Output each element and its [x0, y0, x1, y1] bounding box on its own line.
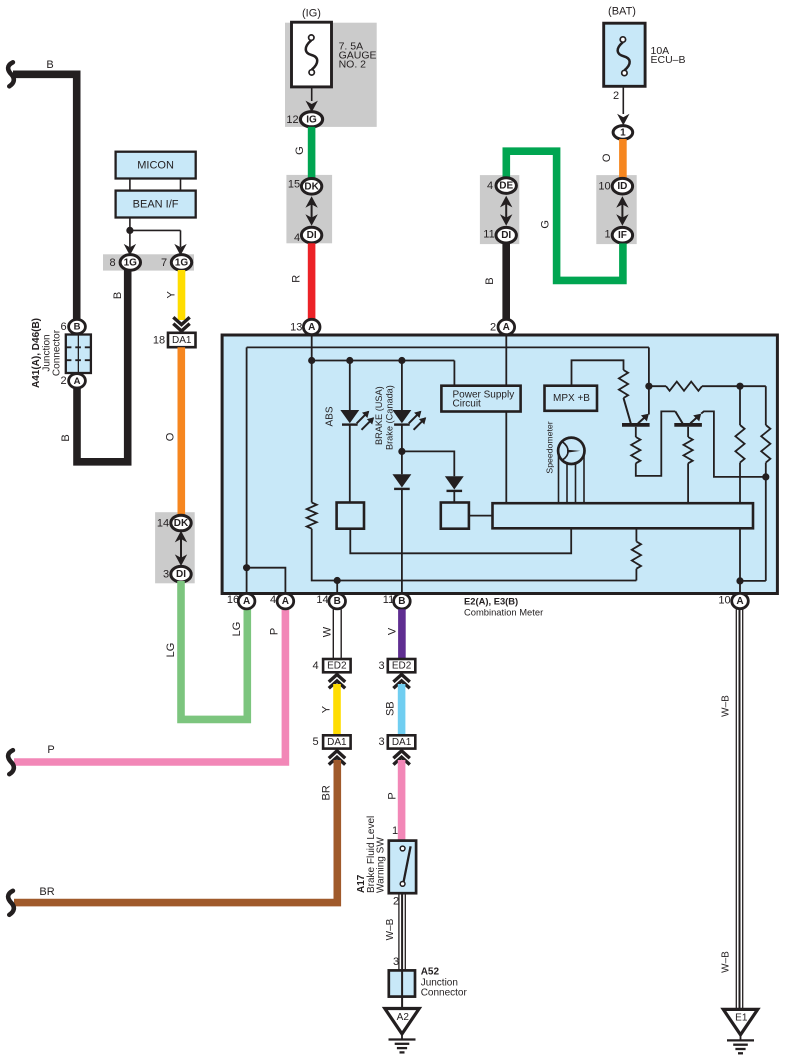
svg-text:G: G	[540, 220, 552, 229]
svg-text:IF: IF	[618, 230, 627, 241]
connector 11 (DI)	[483, 227, 516, 243]
node: dot ABS branch	[346, 357, 353, 364]
meter pin 16 (A)	[227, 594, 255, 609]
svg-text:ECU–B: ECU–B	[651, 54, 686, 66]
connector 4 (DE)	[487, 178, 516, 194]
svg-text:10: 10	[598, 181, 610, 193]
gray background box DK/DI connector (IG column)	[286, 175, 332, 243]
connector 15 (DK)	[288, 178, 322, 194]
svg-text:Connector: Connector	[51, 329, 62, 376]
svg-text:1: 1	[620, 127, 626, 138]
LED BRAKE	[392, 361, 426, 452]
svg-text:DK: DK	[304, 181, 319, 192]
diode D3 (to driver box)	[402, 451, 464, 502]
svg-text:DK: DK	[174, 518, 189, 529]
resistor R4 (horizontal)	[649, 382, 766, 391]
chevron into ED2	[393, 675, 409, 689]
svg-text:B: B	[112, 292, 124, 299]
resistor R5 (on pin10 rail)	[735, 386, 744, 593]
svg-text:4: 4	[487, 180, 493, 192]
wire Y (yellow, ED2 to DA1)	[321, 684, 337, 735]
svg-text:A52: A52	[421, 966, 440, 977]
wire: top rail down to Q1	[648, 347, 650, 414]
svg-text:14: 14	[157, 517, 169, 529]
connector 1 (IF)	[604, 227, 632, 243]
wire: R6 to pin10 rail	[740, 580, 766, 582]
connector 3 (DI)	[163, 566, 191, 582]
svg-text:Circuit: Circuit	[453, 399, 482, 410]
svg-text:DI: DI	[307, 230, 317, 241]
svg-text:16: 16	[227, 594, 239, 606]
connector pin 2 (A)	[60, 374, 85, 388]
chevron into DA1	[393, 751, 409, 765]
svg-text:4: 4	[294, 232, 300, 244]
resistor: left shunt (pin13 rail to bottom rail)	[311, 361, 313, 503]
connector 12 (IG)	[286, 112, 322, 127]
svg-text:B: B	[74, 322, 81, 333]
svg-text:2: 2	[393, 896, 399, 908]
svg-text:LG: LG	[231, 622, 243, 637]
svg-text:ID: ID	[617, 181, 627, 192]
svg-text:P: P	[47, 744, 54, 756]
svg-text:DI: DI	[501, 230, 511, 241]
diode D2 (to pin 11)	[392, 451, 411, 593]
wire: resistor to bottom rail	[312, 529, 637, 581]
wire R (red, DI to meter pin 13)	[291, 243, 312, 322]
svg-text:W–B: W–B	[721, 695, 732, 717]
svg-text:BR: BR	[320, 785, 332, 800]
connector 10 (ID)	[598, 178, 632, 194]
wire P (pink, meter pin 4 to break)	[8, 606, 285, 774]
svg-text:11: 11	[483, 229, 494, 241]
svg-text:Speedometer: Speedometer	[545, 421, 555, 473]
svg-text:4: 4	[312, 660, 318, 672]
svg-text:W–B: W–B	[721, 951, 732, 973]
wire BR (brown, DA1 to break)	[8, 760, 337, 915]
wire: branch to pin 4	[247, 568, 286, 593]
svg-text:1: 1	[604, 229, 610, 241]
svg-text:A: A	[282, 596, 289, 607]
svg-text:W–B: W–B	[385, 918, 396, 940]
svg-text:8: 8	[109, 257, 115, 269]
svg-text:BEAN I/F: BEAN I/F	[133, 199, 179, 211]
Power Supply Circuit box	[441, 386, 520, 412]
wire SB (sky blue, ED2 to DA1)	[385, 684, 402, 735]
gray background box IG fuse block	[285, 23, 377, 127]
connector pin 8 (1G)	[109, 255, 140, 271]
connector 1	[613, 126, 633, 140]
meter pin 2 (A)	[490, 319, 515, 334]
transistor Q2	[674, 411, 702, 425]
wire: pin 2 down to power supply circuit	[505, 336, 507, 386]
wire: driver box 2 to bus bar	[469, 515, 493, 517]
wire: rail down to power supply circuit	[453, 361, 455, 386]
driver box 1 (ABS)	[337, 503, 364, 529]
connector 4 ED2	[312, 659, 350, 672]
svg-text:11: 11	[383, 594, 394, 606]
svg-text:DI: DI	[176, 569, 186, 580]
svg-text:P: P	[269, 628, 281, 635]
wire G (green, IG to DK)	[294, 127, 312, 180]
svg-text:DA1: DA1	[327, 737, 347, 748]
svg-text:1G: 1G	[175, 257, 189, 268]
double arrow ID-IF	[616, 196, 628, 226]
svg-text:2: 2	[613, 90, 619, 102]
chevron into ED2	[329, 675, 345, 689]
node: dot right rail	[736, 383, 743, 390]
svg-text:10: 10	[718, 595, 730, 607]
junction connector A52	[389, 970, 415, 996]
resistor R2 (Q1 emitter)	[631, 411, 675, 476]
fuse 7.5A GAUGE NO.2	[292, 22, 377, 87]
wire W (white, pin14 to ED2)	[322, 609, 342, 659]
gray background box DK/DI connector (orange column)	[155, 512, 195, 583]
wire O (orange, DA1 to DK)	[164, 347, 181, 516]
svg-text:18: 18	[153, 334, 165, 346]
svg-text:A: A	[503, 322, 510, 333]
svg-text:13: 13	[290, 321, 302, 333]
wire G (green, IF to DE)	[506, 151, 623, 280]
svg-text:ED2: ED2	[327, 661, 347, 672]
svg-text:DA1: DA1	[172, 335, 192, 346]
connector 3 ED2	[378, 659, 415, 672]
wire fuse to IG connector	[311, 87, 313, 101]
svg-text:LG: LG	[165, 643, 177, 658]
meter pin 14 (B)	[316, 594, 345, 609]
svg-text:BR: BR	[39, 886, 54, 898]
svg-text:B: B	[60, 434, 72, 441]
wires: speedometer to bus bar	[559, 452, 585, 503]
node: dot BRAKE branch	[398, 357, 405, 364]
wire B (black, junction connector to 1G pin 8)	[60, 262, 128, 462]
BEAN I/F box	[116, 191, 196, 218]
meter pin 10 (A)	[718, 593, 748, 608]
wire O (orange, to ID)	[601, 139, 623, 180]
wire B (black, DI to meter pin 2)	[484, 243, 506, 322]
svg-text:4: 4	[270, 594, 276, 606]
resistor R7 (bus bar to bottom rail)	[632, 528, 641, 580]
connector 4 (DI)	[294, 227, 322, 244]
label E2(A), E3(B) Combination Meter	[464, 595, 543, 617]
bus bar	[493, 503, 754, 528]
svg-text:12: 12	[286, 114, 298, 126]
MPX +B box	[545, 386, 598, 411]
svg-text:O: O	[164, 432, 176, 441]
connector 14 (DK)	[157, 515, 191, 531]
label A52 Junction Connector	[421, 966, 468, 998]
fuse 10A ECU-B	[604, 23, 686, 86]
svg-text:14: 14	[316, 594, 328, 606]
svg-text:15: 15	[288, 178, 300, 190]
svg-text:V: V	[386, 627, 398, 635]
wire P (pink, DA1 to brake fluid switch)	[386, 760, 401, 841]
junction dot	[126, 227, 133, 234]
wire: inner top rail	[247, 346, 649, 348]
connector 3 DA1	[378, 735, 415, 748]
svg-text:E2(A), E3(B): E2(A), E3(B)	[464, 595, 518, 606]
svg-text:3: 3	[163, 569, 169, 581]
svg-text:A2: A2	[397, 1012, 410, 1023]
svg-text:MPX +B: MPX +B	[553, 393, 590, 404]
wire BEAN I/F to 1G pins with branch	[130, 218, 181, 248]
svg-text:Brake (Canada): Brake (Canada)	[384, 385, 394, 450]
wire B (black, from break to junction connector A41)	[8, 59, 77, 319]
svg-text:B: B	[398, 596, 405, 607]
wire: pin 13 stub	[311, 336, 313, 361]
svg-text:1G: 1G	[124, 257, 138, 268]
ground A2	[385, 1009, 419, 1053]
wire: power supply circuit to bus bar	[505, 412, 507, 504]
speedometer	[558, 438, 584, 464]
svg-text:P: P	[386, 792, 398, 799]
wire LG (light green, DI to meter pin 16)	[165, 581, 247, 719]
wire: MPX +B to resistor R1	[572, 360, 624, 385]
svg-text:ABS: ABS	[325, 406, 336, 426]
chevron into DA1	[329, 751, 345, 765]
svg-text:O: O	[601, 153, 613, 162]
resistor R1	[619, 370, 628, 398]
wire: Q2 emitter to right junction	[701, 411, 766, 477]
svg-text:R: R	[291, 275, 303, 283]
MICON box	[116, 152, 196, 179]
meter pin 11 (B)	[383, 594, 410, 609]
svg-text:5: 5	[312, 736, 318, 748]
svg-text:(IG): (IG)	[302, 7, 321, 19]
node: junction dot left rail	[243, 564, 250, 571]
wire W-B (pin 10 to ground E1)	[721, 609, 743, 1009]
svg-text:A: A	[736, 596, 743, 607]
svg-text:(BAT): (BAT)	[608, 6, 636, 18]
connector 5 DA1	[312, 735, 350, 748]
gray background box DE/DI connector	[480, 175, 519, 244]
svg-text:7: 7	[161, 257, 167, 269]
arrow onto pin 7	[174, 244, 186, 256]
wire fuse to connector 1	[622, 86, 624, 114]
wire: pin 14 stub	[336, 581, 338, 594]
ground E1	[723, 1009, 757, 1053]
svg-text:B: B	[334, 596, 341, 607]
resistor R6 (rightmost)	[761, 386, 770, 581]
combination meter E2(A), E3(B) box	[222, 335, 777, 594]
transistor Q1	[622, 398, 650, 425]
svg-text:MICON: MICON	[137, 160, 174, 172]
svg-text:IG: IG	[306, 114, 317, 125]
svg-text:W: W	[322, 626, 334, 637]
double arrow DK-DI	[305, 196, 317, 226]
wire: driver box 1 to bus bar	[350, 528, 571, 553]
gray background box ID/IF connector (BAT column)	[596, 175, 636, 244]
resistor R3 (Q2 base to bus bar)	[684, 427, 693, 503]
svg-text:B: B	[46, 59, 53, 71]
connector 18 DA1	[153, 333, 196, 347]
svg-text:SB: SB	[385, 701, 397, 716]
connector pin 6 (B)	[60, 319, 85, 333]
arrow onto pin 8	[124, 244, 136, 256]
connector pin 7 (1G)	[161, 255, 192, 271]
svg-text:2: 2	[490, 321, 496, 333]
svg-text:DE: DE	[499, 181, 513, 192]
svg-text:B: B	[484, 277, 496, 284]
driver box 2 (BRAKE)	[441, 503, 469, 529]
svg-text:BRAKE (USA): BRAKE (USA)	[374, 386, 384, 445]
wire W-B (switch to A52)	[385, 893, 405, 1008]
svg-text:Warning SW: Warning SW	[376, 837, 387, 893]
svg-text:Combination Meter: Combination Meter	[464, 607, 543, 618]
meter pin 13 (A)	[290, 319, 320, 334]
label A17 Brake Fluid Level Warning SW	[356, 816, 387, 893]
node: dot pin13 rail	[308, 357, 315, 364]
switch A17 Brake Fluid Level Warning SW	[389, 841, 416, 894]
svg-text:Y: Y	[321, 705, 333, 713]
junction connector A41(A), D46(B)	[66, 335, 91, 374]
double arrow DE-DI	[500, 196, 512, 226]
wire V (violet, pin11 to ED2)	[386, 609, 402, 659]
node: dot R6 bottom	[762, 473, 769, 480]
svg-text:Connector: Connector	[421, 987, 468, 998]
svg-text:E1: E1	[735, 1013, 748, 1024]
svg-text:3: 3	[378, 736, 384, 748]
svg-text:DA1: DA1	[392, 737, 412, 748]
gray background band 1G connectors	[103, 254, 194, 270]
svg-text:Y: Y	[166, 290, 178, 298]
wire Y (yellow, 1G pin7 to DA1)	[166, 270, 182, 320]
svg-text:3: 3	[393, 956, 399, 968]
node: dot BRAKE split	[398, 448, 405, 455]
svg-text:1: 1	[392, 825, 398, 837]
svg-text:3: 3	[378, 660, 384, 672]
node: dot pin10 bottom	[736, 577, 743, 584]
svg-text:ED2: ED2	[392, 661, 412, 672]
svg-text:A: A	[308, 322, 315, 333]
wire: inner left rail pin16	[246, 347, 248, 593]
label A41(A), D46(B) Junction Connector	[31, 318, 62, 388]
wires MICON to BEAN I/F	[130, 179, 181, 191]
meter pin 4 (A)	[270, 594, 294, 609]
LED ABS	[340, 361, 374, 503]
chevron arrows into DA1	[173, 317, 189, 331]
svg-text:A: A	[243, 596, 250, 607]
svg-text:NO. 2: NO. 2	[339, 59, 367, 71]
node: dot pin 14	[334, 577, 341, 584]
svg-text:G: G	[294, 146, 306, 155]
wire: LED feed rail	[312, 360, 455, 362]
node: dot Q1 collector rail	[645, 383, 652, 390]
double arrow DK-DI	[175, 531, 187, 566]
svg-text:A: A	[74, 376, 81, 387]
